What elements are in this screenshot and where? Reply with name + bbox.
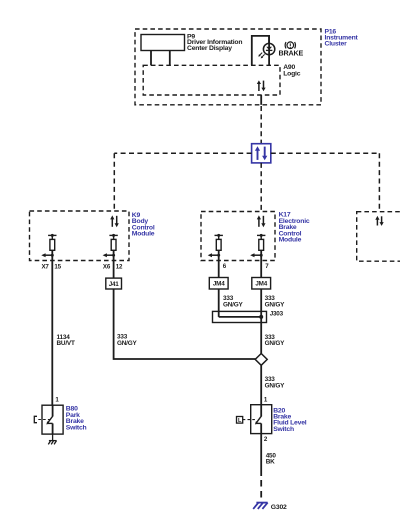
dashed serial data wire down to gateway: [260, 106, 262, 144]
svg-text:Module: Module: [279, 237, 302, 244]
K17 input resistor pin 7: [250, 234, 265, 257]
wire label 1134 BU/VT: [57, 334, 75, 347]
B20 switch blade: [255, 416, 262, 434]
dashed data bus right: [271, 152, 380, 154]
svg-text:12: 12: [116, 264, 123, 271]
svg-text:JM4: JM4: [213, 281, 225, 288]
pin X6 12 labels: [103, 264, 123, 271]
wire JM4 left into J303: [218, 289, 220, 317]
LED brake indicator lamp: [258, 37, 275, 66]
A90 Logic label: [283, 64, 301, 77]
dashed drop to K9: [113, 153, 115, 211]
wire label 450 BK: [266, 452, 277, 465]
wire label 333 GN/GY (below diamond): [265, 376, 286, 389]
B20 top contact stub: [260, 405, 262, 416]
brake warning icon ((!)): [285, 42, 295, 49]
svg-text:X7: X7: [42, 264, 50, 271]
wire pin6 to JM4: [218, 250, 220, 277]
svg-text:J303: J303: [270, 310, 284, 317]
right module serial arrows: [375, 216, 383, 226]
connector JM4 right: [252, 278, 271, 290]
svg-text:Module: Module: [132, 231, 155, 238]
wire JM4 right through J303 to diamond: [260, 289, 262, 354]
K17 serial arrows: [257, 215, 266, 227]
connector JM4 left: [209, 278, 228, 290]
right module dashed box (partial): [357, 212, 400, 262]
pin X7 15 labels: [42, 264, 62, 271]
dashed drop to K17: [260, 163, 262, 212]
splice pack J303: [213, 311, 267, 322]
diamond splice: [255, 354, 267, 366]
wire diamond to B20: [260, 365, 262, 404]
wire label 333 GN/GY (above diamond): [265, 334, 286, 347]
wire B20 to ground 450 BK: [260, 434, 262, 476]
K9 serial arrows: [110, 215, 119, 227]
K9 input resistor X7: [41, 234, 56, 257]
K17 electronic brake control module dashed box: [201, 212, 275, 261]
A90 serial data arrows: [257, 80, 266, 91]
brake fluid level switch B20 box: [251, 405, 272, 434]
wire pin7 to JM4: [260, 250, 262, 277]
instrument cluster P16 dashed box: [135, 29, 321, 105]
K9 label: [132, 212, 155, 238]
svg-text:G302: G302: [271, 504, 287, 511]
svg-text:X6: X6: [103, 264, 111, 271]
K9 body control module dashed box: [30, 211, 130, 261]
wire label 333 GN/GY (right): [265, 295, 286, 308]
dashed data bus left: [114, 152, 251, 154]
svg-text:GN/GY: GN/GY: [265, 382, 286, 389]
A90 logic dashed box: [143, 65, 280, 95]
wire label 333 GN/GY (left): [223, 295, 244, 308]
display P9: [141, 35, 185, 66]
dashed ground lead: [260, 480, 262, 498]
svg-text:BK: BK: [266, 459, 275, 466]
K17 input resistor pin 6: [208, 234, 223, 257]
svg-text:15: 15: [54, 264, 61, 271]
B80 chassis ground: [48, 434, 56, 444]
svg-text:GN/GY: GN/GY: [265, 340, 286, 347]
connector J41: [106, 278, 122, 289]
K17 label: [279, 212, 310, 244]
P9 Driver Information Center Display label: [187, 33, 242, 51]
ground G302 symbol: [253, 503, 268, 509]
wire loop to LED lamp: [252, 36, 269, 65]
K9 input resistor X6: [103, 234, 118, 257]
svg-text:GN/GY: GN/GY: [223, 301, 244, 308]
svg-text:Center Display: Center Display: [187, 45, 232, 52]
svg-text:J41: J41: [109, 281, 120, 288]
svg-text:Logic: Logic: [283, 70, 301, 77]
svg-text:Switch: Switch: [66, 424, 87, 431]
park brake switch B80 box: [42, 405, 63, 434]
wire J41 to diamond splice: [114, 289, 256, 359]
svg-text:BU/VT: BU/VT: [57, 340, 75, 347]
serial data bus box: [252, 144, 271, 163]
wire label 333 GN/GY (J41 leg): [117, 334, 138, 347]
B20 fluid level sensor L box: [237, 417, 257, 424]
B80 top contact stub: [52, 405, 54, 416]
svg-text:GN/GY: GN/GY: [265, 301, 286, 308]
svg-text:Cluster: Cluster: [325, 41, 348, 48]
svg-text:GN/GY: GN/GY: [117, 340, 138, 347]
B80 switch blade: [46, 416, 53, 435]
B20 label: [273, 407, 307, 433]
wire X6 to J41: [113, 250, 115, 278]
B80 label: [66, 406, 87, 432]
svg-text:BRAKE: BRAKE: [279, 49, 304, 58]
P16 Instrument Cluster label: [325, 28, 359, 47]
wire X7 to B80: [51, 250, 53, 405]
B80 mechanical actuator bracket: [34, 416, 50, 422]
svg-text:Switch: Switch: [273, 426, 294, 433]
wire A90 to P16 boundary: [260, 95, 262, 105]
dashed drop to right module: [378, 153, 380, 211]
svg-text:JM4: JM4: [255, 281, 267, 288]
